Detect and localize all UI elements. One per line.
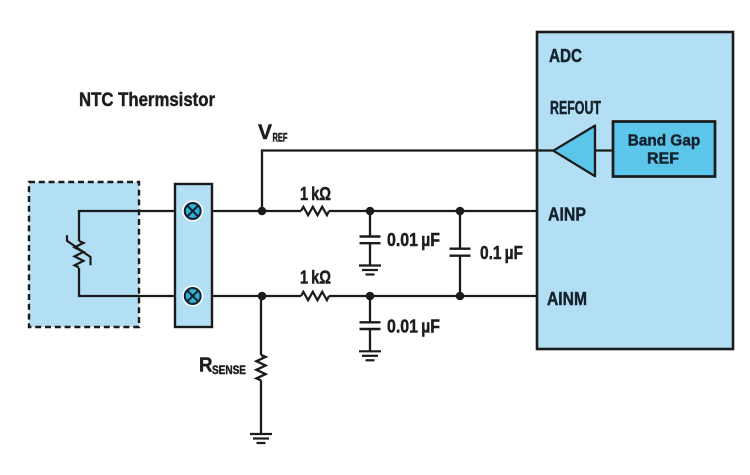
svg-text:0.01 µF: 0.01 µF	[387, 230, 440, 250]
svg-text:AINM: AINM	[547, 289, 587, 309]
svg-text:SENSE: SENSE	[212, 365, 246, 377]
svg-text:0.1 µF: 0.1 µF	[480, 243, 523, 263]
svg-text:R: R	[199, 355, 213, 377]
svg-text:Band Gap: Band Gap	[628, 133, 701, 150]
svg-text:REF: REF	[273, 133, 288, 145]
svg-text:REF: REF	[647, 151, 679, 168]
svg-text:1 kΩ: 1 kΩ	[300, 267, 331, 287]
svg-text:AINP: AINP	[548, 205, 586, 225]
svg-text:ADC: ADC	[549, 46, 582, 66]
svg-text:V: V	[258, 120, 273, 144]
svg-text:NTC Thermsistor: NTC Thermsistor	[79, 90, 216, 111]
svg-text:1 kΩ: 1 kΩ	[300, 184, 331, 204]
svg-text:REFOUT: REFOUT	[550, 98, 601, 118]
svg-text:0.01 µF: 0.01 µF	[387, 317, 440, 337]
